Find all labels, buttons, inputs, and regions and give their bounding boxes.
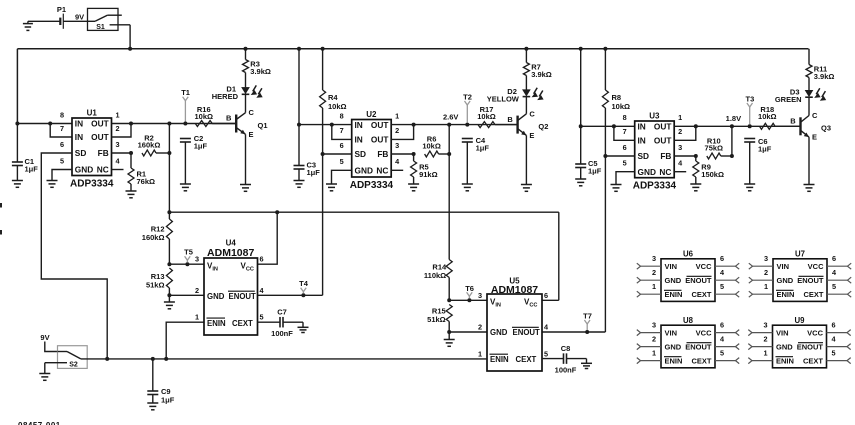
svg-text:C: C bbox=[249, 108, 255, 117]
LED D1 HERED bbox=[212, 85, 263, 102]
resistor R4 10kohm (pull-up) bbox=[320, 49, 347, 154]
junction T6 bbox=[467, 298, 471, 302]
svg-text:3: 3 bbox=[763, 320, 767, 329]
svg-text:1μF: 1μF bbox=[588, 167, 602, 176]
resistor R8 10kohm (pull-up) bbox=[602, 49, 630, 156]
wire U5 VIN row bbox=[449, 299, 487, 301]
svg-text:GND: GND bbox=[355, 166, 373, 176]
junction FB bbox=[694, 154, 698, 158]
svg-text:5: 5 bbox=[720, 348, 724, 357]
svg-text:T6: T6 bbox=[465, 284, 474, 293]
junction pin7 jog bbox=[330, 123, 334, 127]
junction FB resistor to output net bbox=[447, 152, 451, 156]
transistor Q1 bbox=[236, 108, 267, 139]
wire U8 pin 2 stub bbox=[637, 334, 661, 349]
test point T7 bbox=[583, 311, 592, 330]
supervisor U6 ADM1087 (option) bbox=[661, 249, 715, 301]
ground (C9) bbox=[147, 402, 158, 404]
wire U6 pin 1 stub bbox=[637, 282, 661, 297]
svg-text:1: 1 bbox=[678, 113, 682, 122]
resistor R1 76kohm bbox=[128, 153, 155, 191]
svg-text:76kΩ: 76kΩ bbox=[137, 177, 156, 186]
svg-text:110kΩ: 110kΩ bbox=[424, 271, 446, 280]
svg-text:ADP3334: ADP3334 bbox=[70, 178, 114, 189]
wire U3 pin 2 jog bbox=[674, 126, 696, 140]
svg-text:B: B bbox=[226, 114, 232, 123]
svg-text:R8: R8 bbox=[612, 93, 622, 102]
wire U8 pin 1 stub bbox=[637, 348, 661, 363]
svg-text:3: 3 bbox=[764, 254, 768, 263]
svg-text:10kΩ: 10kΩ bbox=[194, 112, 213, 121]
svg-text:GND: GND bbox=[777, 276, 794, 285]
svg-text:2: 2 bbox=[478, 323, 482, 332]
svg-text:2: 2 bbox=[395, 126, 399, 135]
svg-text:CEXT: CEXT bbox=[232, 319, 253, 328]
svg-text:5: 5 bbox=[720, 282, 724, 291]
ground (C5) bbox=[575, 178, 586, 180]
capacitor C9 1uF bbox=[147, 359, 174, 404]
svg-text:5: 5 bbox=[832, 282, 836, 291]
junction 1.8V bbox=[730, 124, 734, 128]
wire U1 OUT row (pin 1) bbox=[112, 123, 237, 125]
wire U7 pin 5 stub bbox=[827, 282, 851, 297]
svg-text:VCC: VCC bbox=[696, 262, 712, 271]
svg-text:ADM1087: ADM1087 bbox=[491, 284, 538, 296]
junction pin7 jog bbox=[48, 122, 52, 126]
svg-text:7: 7 bbox=[623, 127, 627, 136]
svg-text:6: 6 bbox=[831, 320, 835, 329]
svg-text:U2: U2 bbox=[366, 110, 377, 119]
resistor R2 160kohm bbox=[138, 134, 170, 156]
svg-text:OUT: OUT bbox=[654, 136, 672, 146]
svg-text:5: 5 bbox=[60, 156, 64, 165]
wire U1 output net to U4/U5 VCC bbox=[169, 212, 558, 300]
svg-text:OUT: OUT bbox=[91, 132, 109, 142]
wire U7 pin 4 stub bbox=[827, 268, 851, 283]
svg-text:VIN: VIN bbox=[777, 262, 790, 271]
svg-text:10kΩ: 10kΩ bbox=[422, 142, 441, 151]
svg-text:08457-001: 08457-001 bbox=[18, 421, 61, 425]
wire U6 pin 2 stub bbox=[637, 268, 661, 283]
wire D3 anode to R11 bbox=[808, 78, 810, 91]
svg-text:ENOUT: ENOUT bbox=[513, 328, 541, 337]
wire battery to switch S1 bbox=[63, 20, 87, 22]
wire U1 SD to S2 net bbox=[41, 153, 107, 359]
svg-text:3: 3 bbox=[195, 255, 199, 264]
svg-text:R13: R13 bbox=[151, 272, 165, 281]
svg-text:9V: 9V bbox=[40, 333, 49, 342]
svg-text:GND: GND bbox=[665, 343, 682, 352]
wire S2 output rail (enable net) bbox=[81, 358, 487, 360]
svg-text:C7: C7 bbox=[277, 307, 287, 316]
svg-text:U9: U9 bbox=[795, 316, 806, 325]
svg-text:1μF: 1μF bbox=[476, 144, 490, 153]
svg-text:IN: IN bbox=[355, 120, 363, 130]
svg-text:2: 2 bbox=[764, 268, 768, 277]
svg-text:GND: GND bbox=[75, 165, 93, 175]
ground (C3) bbox=[294, 180, 305, 182]
svg-text:GND: GND bbox=[490, 328, 508, 337]
ground (R9) bbox=[690, 183, 701, 185]
wire U1 NC pin 4 stub bbox=[112, 169, 124, 171]
svg-text:3: 3 bbox=[678, 143, 682, 152]
svg-text:T3: T3 bbox=[746, 94, 755, 103]
test point T3 bbox=[746, 94, 755, 124]
capacitor C5 1uF bbox=[575, 159, 602, 179]
svg-text:OUT: OUT bbox=[371, 120, 389, 130]
svg-text:C: C bbox=[812, 111, 818, 120]
junction output / T1 bbox=[183, 122, 187, 126]
wire U2 NC pin 4 stub bbox=[391, 169, 403, 171]
supervisor U7 ADM1087 (option) bbox=[773, 249, 827, 301]
ground (C2) bbox=[180, 183, 191, 185]
svg-text:3: 3 bbox=[652, 254, 656, 263]
wire D1 anode to R3 bbox=[245, 73, 247, 88]
junction R12 top bbox=[167, 210, 171, 214]
wire 9V to switch S2 bbox=[45, 342, 58, 352]
svg-text:IN: IN bbox=[75, 119, 83, 129]
wire U6 pin 3 stub bbox=[637, 254, 661, 269]
svg-text:ENIN: ENIN bbox=[776, 357, 794, 366]
junction pin2 jog bbox=[412, 123, 416, 127]
svg-text:U1: U1 bbox=[87, 108, 98, 117]
wire U2 FB row (pin 3) bbox=[391, 153, 413, 155]
LED D2 YELLOW bbox=[487, 87, 544, 104]
svg-text:ENOUT: ENOUT bbox=[685, 343, 712, 352]
svg-text:5: 5 bbox=[259, 313, 263, 322]
ground (battery P1 negative) bbox=[23, 21, 33, 30]
junction rail bbox=[297, 47, 301, 51]
wire U9 pin 4 stub bbox=[827, 334, 851, 349]
svg-text:10kΩ: 10kΩ bbox=[758, 112, 777, 121]
junction U5 GND bbox=[447, 330, 451, 334]
wire 2.6V net down to R14 bbox=[448, 125, 450, 260]
capacitor C4 1uF bbox=[462, 136, 490, 184]
resistor R13 51kohm bbox=[146, 268, 172, 295]
wire U3 NC pin 4 stub bbox=[674, 171, 686, 173]
wire U9 pin 1 stub bbox=[748, 348, 772, 363]
svg-text:1: 1 bbox=[763, 348, 767, 357]
svg-text:3.9kΩ: 3.9kΩ bbox=[250, 67, 271, 76]
wire 9V rail to U2 input bbox=[298, 49, 300, 166]
resistor R15 51kohm bbox=[427, 305, 452, 333]
svg-text:2: 2 bbox=[763, 334, 767, 343]
junction FB bbox=[412, 152, 416, 156]
svg-text:GND: GND bbox=[638, 167, 656, 177]
capacitor C6 1uF bbox=[744, 137, 772, 184]
junction SD / R4 bbox=[321, 152, 325, 156]
svg-text:NC: NC bbox=[659, 167, 671, 177]
wire U3 OUT row (pin 1) bbox=[674, 125, 800, 127]
svg-text:6: 6 bbox=[340, 141, 344, 150]
svg-text:U6: U6 bbox=[683, 249, 694, 258]
junction output / T2 bbox=[465, 123, 469, 127]
svg-text:1μF: 1μF bbox=[25, 165, 39, 174]
wire 9V rail to U3 input bbox=[580, 49, 582, 164]
junction S1 drop on rail bbox=[128, 47, 132, 51]
svg-text:FB: FB bbox=[98, 148, 109, 158]
ground (C7) bbox=[298, 326, 309, 328]
svg-text:ENIN: ENIN bbox=[777, 290, 795, 299]
svg-text:B: B bbox=[790, 117, 796, 126]
svg-text:1μF: 1μF bbox=[194, 142, 208, 151]
junction U1 SD net bbox=[105, 357, 109, 361]
svg-text:9V: 9V bbox=[75, 13, 84, 22]
capacitor C8 100nF bbox=[542, 344, 587, 375]
wire R8 line down to U5 ENOUT bbox=[604, 156, 606, 332]
ground (C8) bbox=[581, 362, 592, 364]
junction T5 bbox=[185, 262, 189, 266]
svg-text:S2: S2 bbox=[69, 362, 78, 369]
wire U3 SD row bbox=[605, 155, 634, 157]
svg-text:SD: SD bbox=[75, 148, 87, 158]
svg-text:2: 2 bbox=[652, 334, 656, 343]
svg-text:1: 1 bbox=[115, 110, 119, 119]
svg-text:T5: T5 bbox=[184, 248, 193, 257]
svg-text:VIN: VIN bbox=[665, 329, 678, 338]
regulator U2 ADP3334 bbox=[340, 110, 401, 191]
svg-text:6: 6 bbox=[623, 143, 627, 152]
junction rail / R7 bbox=[524, 47, 528, 51]
svg-text:P1: P1 bbox=[57, 5, 66, 14]
ground (Q2 emitter) bbox=[521, 184, 532, 186]
wire switch S1 to 9V rail bbox=[129, 25, 131, 49]
svg-text:1: 1 bbox=[652, 282, 656, 291]
regulator U3 ADP3334 bbox=[623, 111, 684, 191]
wire U7 pin 6 stub bbox=[827, 254, 851, 269]
svg-text:1: 1 bbox=[764, 282, 768, 291]
svg-text:VCC: VCC bbox=[696, 329, 712, 338]
svg-text:VCC: VCC bbox=[808, 262, 824, 271]
ground (R1) bbox=[126, 190, 137, 192]
wire U9 pin 6 stub bbox=[827, 320, 851, 335]
ground (S2) bbox=[39, 363, 50, 381]
svg-text:E: E bbox=[529, 131, 534, 140]
svg-text:2: 2 bbox=[678, 127, 682, 136]
wire U7 pin 1 stub bbox=[749, 282, 773, 297]
junction U4 VIN bbox=[167, 262, 171, 266]
junction SD / R8 bbox=[603, 154, 607, 158]
svg-text:8: 8 bbox=[60, 110, 64, 119]
svg-text:OUT: OUT bbox=[91, 119, 109, 129]
junction 2.6V bbox=[447, 123, 451, 127]
svg-text:1: 1 bbox=[478, 349, 482, 358]
svg-text:ADM1087: ADM1087 bbox=[207, 247, 254, 259]
supervisor U5 ADM1087 bbox=[478, 277, 549, 371]
resistor R17 10kohm bbox=[477, 105, 517, 127]
svg-text:91kΩ: 91kΩ bbox=[419, 170, 438, 179]
ground (R5) bbox=[408, 183, 419, 185]
regulator U1 ADP3334 bbox=[60, 108, 121, 189]
wire S2 lower contact to ground bbox=[45, 362, 58, 364]
svg-text:B: B bbox=[507, 115, 513, 124]
cut-off text left edge bbox=[0, 203, 2, 235]
svg-text:160kΩ: 160kΩ bbox=[138, 141, 161, 150]
switch S1 bbox=[88, 8, 131, 31]
svg-text:CEXT: CEXT bbox=[803, 357, 823, 366]
svg-text:SD: SD bbox=[638, 151, 650, 161]
wire U2 SD row bbox=[323, 153, 352, 155]
svg-text:5: 5 bbox=[623, 159, 627, 168]
svg-text:1.8V: 1.8V bbox=[726, 114, 741, 123]
wire U1 IN row (pin 8) bbox=[17, 123, 72, 125]
wire U3 GND pin 5 bbox=[616, 172, 635, 185]
transistor Q3 bbox=[801, 111, 832, 142]
wire U1 pin 7 jog bbox=[50, 124, 72, 138]
junction FB bbox=[129, 151, 133, 155]
ground (R13 / U4 GND) bbox=[164, 295, 175, 309]
supervisor U9 ADM1087 (option) bbox=[773, 316, 827, 368]
svg-text:CEXT: CEXT bbox=[691, 357, 711, 366]
resistor R5 91kohm bbox=[411, 154, 438, 184]
wire 9V top rail bbox=[17, 49, 808, 124]
svg-text:51kΩ: 51kΩ bbox=[146, 281, 165, 290]
ground (U1 pin 5) bbox=[47, 180, 58, 182]
junction U4 ENIN bbox=[164, 357, 168, 361]
supervisor U4 ADM1087 bbox=[195, 239, 265, 335]
ground (C1) bbox=[12, 180, 23, 182]
svg-text:6: 6 bbox=[60, 140, 64, 149]
svg-text:8: 8 bbox=[623, 113, 627, 122]
wire U2 IN row (pin 8) bbox=[299, 124, 352, 126]
svg-text:OUT: OUT bbox=[654, 122, 672, 132]
junction output / T3 bbox=[748, 124, 752, 128]
svg-text:7: 7 bbox=[60, 124, 64, 133]
svg-text:SD: SD bbox=[355, 149, 367, 159]
svg-text:51kΩ: 51kΩ bbox=[427, 315, 446, 324]
wire U4 ENIN row to S2 net bbox=[166, 322, 204, 359]
svg-text:5: 5 bbox=[544, 349, 548, 358]
svg-text:150kΩ: 150kΩ bbox=[701, 170, 724, 179]
svg-text:ENIN: ENIN bbox=[665, 357, 683, 366]
resistor R12 160kohm bbox=[142, 212, 173, 264]
supervisor U8 ADM1087 (option) bbox=[661, 316, 715, 368]
ground (U3 pin 5) bbox=[611, 184, 622, 186]
svg-text:HERED: HERED bbox=[212, 92, 239, 101]
wire Q1 collector to D1 bbox=[245, 94, 247, 112]
junction rail / R3 bbox=[244, 47, 248, 51]
test point T5 bbox=[184, 248, 193, 263]
junction bbox=[167, 122, 171, 126]
svg-text:1: 1 bbox=[652, 348, 656, 357]
svg-text:1μF: 1μF bbox=[307, 168, 321, 177]
svg-text:GREEN: GREEN bbox=[775, 95, 802, 104]
junction pin2 jog bbox=[694, 124, 698, 128]
svg-text:T2: T2 bbox=[463, 92, 472, 101]
svg-text:1: 1 bbox=[395, 111, 399, 120]
test point T4 bbox=[299, 279, 309, 293]
capacitor C2 1uF bbox=[180, 134, 208, 184]
svg-text:Q3: Q3 bbox=[821, 124, 831, 133]
junction rail / R8 bbox=[603, 47, 607, 51]
svg-text:S1: S1 bbox=[96, 24, 105, 31]
svg-text:1μF: 1μF bbox=[161, 395, 175, 404]
svg-text:7: 7 bbox=[340, 126, 344, 135]
svg-text:FB: FB bbox=[660, 151, 671, 161]
junction FB resistor to output net bbox=[167, 151, 171, 155]
svg-text:ADP3334: ADP3334 bbox=[633, 181, 677, 192]
wire U9 pin 2 stub bbox=[748, 334, 772, 349]
wire U3 FB row (pin 3) bbox=[674, 155, 696, 157]
svg-text:10kΩ: 10kΩ bbox=[477, 112, 496, 121]
svg-text:ENIN: ENIN bbox=[665, 290, 683, 299]
wire left input line down to C1 bbox=[16, 124, 18, 163]
ground (U2 pin 5) bbox=[326, 183, 337, 185]
svg-text:FB: FB bbox=[377, 149, 388, 159]
svg-text:2: 2 bbox=[195, 286, 199, 295]
junction T4 bbox=[301, 293, 305, 297]
svg-text:T7: T7 bbox=[583, 311, 592, 320]
wire U4 GND row bbox=[169, 294, 204, 296]
junction U3 IN bbox=[579, 124, 583, 128]
svg-text:E: E bbox=[812, 133, 817, 142]
svg-text:U8: U8 bbox=[683, 316, 694, 325]
ground (C6) bbox=[744, 183, 755, 185]
resistor R6 10kohm bbox=[422, 135, 449, 157]
wire U7 pin 2 stub bbox=[749, 268, 773, 283]
svg-text:10kΩ: 10kΩ bbox=[328, 102, 347, 111]
capacitor C1 1uF bbox=[12, 157, 38, 181]
wire Q1 emitter to ground bbox=[245, 134, 247, 184]
wire U4 VCC to VCC net bbox=[258, 212, 278, 264]
svg-text:VIN: VIN bbox=[665, 262, 678, 271]
test point T6 bbox=[465, 284, 474, 299]
junction U1 IN bbox=[15, 122, 19, 126]
svg-text:75kΩ: 75kΩ bbox=[705, 144, 724, 153]
svg-text:YELLOW: YELLOW bbox=[487, 95, 520, 104]
svg-text:ENIN: ENIN bbox=[207, 319, 226, 328]
svg-text:E: E bbox=[249, 130, 254, 139]
wire U9 pin 5 stub bbox=[827, 348, 851, 363]
svg-text:T4: T4 bbox=[299, 279, 309, 288]
ground (Q3 emitter) bbox=[804, 184, 815, 186]
svg-text:6: 6 bbox=[832, 254, 836, 263]
svg-text:IN: IN bbox=[75, 132, 83, 142]
wire U6 pin 5 stub bbox=[715, 282, 739, 297]
wire U3 IN row (pin 8) bbox=[581, 125, 635, 127]
wire U8 pin 5 stub bbox=[715, 348, 739, 363]
resistor R7 3.9kohm bbox=[523, 49, 551, 79]
junction U4 VCC branch bbox=[275, 210, 279, 214]
transistor Q2 bbox=[518, 109, 549, 140]
svg-text:3: 3 bbox=[478, 291, 482, 300]
junction U2 IN bbox=[297, 123, 301, 127]
wire R10 riser to 1.8V net bbox=[731, 126, 733, 156]
svg-text:6: 6 bbox=[720, 254, 724, 263]
svg-text:IN: IN bbox=[355, 135, 363, 145]
svg-text:GND: GND bbox=[776, 343, 793, 352]
LED D3 GREEN bbox=[775, 88, 826, 105]
junction FB resistor to output net bbox=[730, 154, 734, 158]
svg-text:1μF: 1μF bbox=[758, 145, 772, 154]
junction pin2 jog bbox=[129, 122, 133, 126]
wire U4 ENOUT row to R4 line bbox=[258, 294, 323, 296]
svg-text:3.9kΩ: 3.9kΩ bbox=[531, 70, 552, 79]
wire U2 GND pin 5 bbox=[332, 170, 352, 184]
svg-text:10kΩ: 10kΩ bbox=[612, 102, 631, 111]
svg-text:CEXT: CEXT bbox=[803, 290, 823, 299]
capacitor C3 1uF bbox=[294, 161, 321, 181]
svg-text:ENOUT: ENOUT bbox=[685, 276, 712, 285]
junction U5 VIN bbox=[447, 298, 451, 302]
wire U1 FB row (pin 3) bbox=[112, 152, 132, 154]
ground (R15 / U5 GND) bbox=[444, 332, 455, 346]
svg-text:Q2: Q2 bbox=[538, 122, 548, 131]
svg-text:IN: IN bbox=[638, 136, 646, 146]
svg-text:100nF: 100nF bbox=[555, 366, 577, 375]
junction C9 bbox=[151, 357, 155, 361]
svg-text:3.9kΩ: 3.9kΩ bbox=[814, 72, 835, 81]
